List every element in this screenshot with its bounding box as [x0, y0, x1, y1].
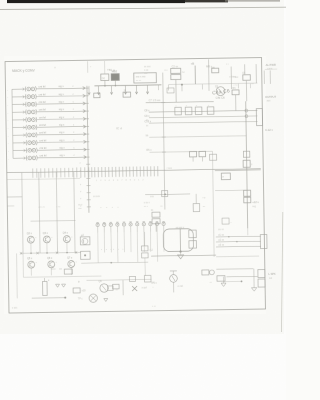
label out line 0 [218, 229, 224, 231]
wire J1 pin 3 net [37, 102, 85, 105]
bus tap row 4 [86, 110, 89, 112]
label TB1 [107, 68, 115, 72]
capacitor C20 electrolytic [96, 222, 99, 232]
svg-text:R5 x: R5 x [146, 149, 152, 152]
varistor X1 [132, 286, 137, 291]
wire J1 pin 4 stub [12, 111, 26, 114]
junction dot top rail [181, 84, 183, 86]
bus lower faint line [7, 178, 80, 179]
wire caps row drops [98, 232, 164, 263]
capacitor C22 electrolytic [109, 222, 112, 232]
svg-text:rr: rr [222, 176, 224, 179]
module MB3 box [134, 73, 157, 83]
svg-text:TP5 x: TP5 x [151, 282, 158, 285]
ground G3 [104, 298, 108, 301]
label near Q1 [229, 75, 236, 78]
svg-text:C8 x: C8 x [144, 109, 150, 112]
module MB2 box [111, 74, 119, 81]
test point TP5 drop [135, 85, 138, 94]
svg-text:MB2: MB2 [112, 69, 118, 73]
label AL PWR 2 [267, 67, 273, 70]
svg-text:Q2 x: Q2 x [27, 232, 33, 235]
svg-text:xx xxx: xx xxx [144, 66, 151, 68]
test point TP3 drop [110, 86, 113, 95]
svg-text:Q7 x: Q7 x [67, 257, 73, 260]
bus tap row 2 [86, 95, 89, 97]
capacitor C210 electrolytic [162, 221, 165, 231]
test point TP6 drop [146, 85, 149, 94]
label pin number 5 [8, 120, 9, 122]
svg-text:+12 v: +12 v [252, 200, 259, 204]
svg-text:Q3 x: Q3 x [43, 232, 49, 235]
svg-text:cnt lvl: cnt lvl [39, 92, 46, 96]
wire J1 pin 8 stub [13, 141, 27, 144]
capacitor C30 electrolytic [42, 278, 50, 296]
bus stub 16 [80, 198, 91, 200]
transformer T1 winding [179, 229, 181, 251]
wire right columns [231, 64, 256, 89]
wire J1 pin 2 stub [12, 95, 26, 98]
diode D6 box [144, 275, 151, 282]
label C4x C6 big [212, 88, 231, 96]
label c ccc [12, 306, 18, 309]
wire bias rail [146, 98, 214, 102]
ground G2 [62, 284, 66, 287]
wire right cluster drops [235, 81, 246, 111]
arrow into bus row 6 [83, 125, 86, 128]
svg-text:xxx xx: xxx xx [38, 206, 45, 208]
svg-text:sig x: sig x [58, 84, 64, 88]
label L SPKR [268, 272, 276, 280]
resistor R2 box [123, 92, 131, 97]
diode D7 box [210, 154, 217, 160]
label pin number 7 [8, 135, 9, 137]
transistor Q1 [215, 85, 225, 96]
wire bottom rail a [31, 276, 101, 277]
svg-text:o1 xx: o1 xx [218, 235, 224, 237]
label R2 value [123, 89, 126, 92]
wire lower rail [151, 255, 216, 256]
wire spkr drop [253, 269, 255, 288]
label C4x C6 [216, 96, 226, 100]
svg-text:C-12 v: C-12 v [265, 128, 273, 132]
label pin number 4 [7, 112, 8, 114]
wire center column taps [161, 103, 166, 153]
svg-text:sig x: sig x [59, 92, 65, 96]
bus stub 11 [80, 162, 91, 164]
arrow into bus row 3 [83, 102, 86, 105]
connector CN4 stack [258, 270, 265, 288]
svg-text:cnt lvl: cnt lvl [39, 154, 46, 158]
svg-text:sig x: sig x [59, 100, 65, 104]
label net name row 7 [39, 130, 75, 135]
label pin number 8 [8, 143, 9, 145]
wire drop 3 [56, 172, 57, 253]
svg-text:xxx x xxx: xxx x xxx [136, 75, 147, 78]
bus tap row 6 [86, 125, 89, 127]
transistor Q8 [99, 281, 109, 292]
resistor chain R12 [141, 232, 148, 276]
svg-text:sig x: sig x [59, 107, 65, 111]
svg-text:sig x: sig x [59, 123, 65, 127]
wire extra drops [158, 84, 250, 92]
wire J1 pin 5 stub [12, 118, 26, 121]
wire node line [145, 193, 190, 196]
wire data line 3 [149, 121, 257, 123]
label center note [150, 195, 154, 198]
label pin number 3 [7, 105, 8, 107]
svg-text:x col: x col [142, 286, 147, 289]
transformer T1 core [163, 229, 193, 252]
bus stub 14 [80, 184, 91, 186]
wire J1 pin 9 net [37, 149, 85, 152]
label output pin [267, 99, 272, 102]
svg-text:C7 1.5 xxx: C7 1.5 xxx [149, 99, 162, 102]
wire C2 drop [175, 80, 177, 103]
svg-text:IC d: IC d [116, 126, 122, 130]
label stage row b [56, 206, 61, 208]
junction x marks rail [20, 251, 77, 254]
resistor R5 box [189, 151, 205, 161]
wire out line 3 [216, 244, 261, 247]
test point TP2 drop [97, 86, 100, 95]
capacitor C23 electrolytic [116, 222, 119, 232]
resistor R17 box [113, 284, 120, 289]
svg-text:cnt lvl: cnt lvl [39, 108, 46, 112]
svg-text:xx xxx: xx xxx [93, 195, 100, 198]
label q9 [178, 285, 184, 288]
ground G1 [56, 284, 60, 287]
wire +B drop [194, 66, 196, 84]
resistor R7 box [244, 190, 251, 203]
connector J1 pin 6 [26, 125, 37, 130]
label c31 rows [144, 202, 164, 208]
module MB2 label [112, 69, 118, 73]
resistor R15 box [64, 269, 72, 274]
wire top right rail [168, 83, 257, 84]
capacitor C28 electrolytic [149, 222, 152, 232]
arrow into bus row 2 [83, 94, 86, 97]
connector J1 pin 5 [26, 117, 37, 122]
wire feed line2 [149, 150, 212, 153]
capacitor C15 box [162, 191, 168, 197]
wire drop 247 ext [247, 228, 249, 235]
label caps row top [100, 207, 120, 209]
capacitor C21 electrolytic [103, 222, 106, 232]
label net name row 3 [39, 99, 75, 104]
transistor Q7 [67, 257, 78, 276]
svg-text:out: out [269, 277, 273, 280]
label IC1 [116, 126, 122, 130]
wire J1 pin 10 net [38, 156, 86, 159]
wire stub left [7, 196, 22, 198]
label R10 [203, 196, 207, 208]
label +B [191, 62, 195, 66]
svg-text:sig x: sig x [59, 130, 65, 134]
svg-text:sig x: sig x [59, 146, 65, 150]
bus tap row 3 [86, 102, 89, 104]
transistor Q3 [43, 232, 54, 253]
connector CN3 box [260, 234, 267, 248]
label pwr underline [265, 68, 277, 70]
resistor R3 box [232, 88, 239, 95]
svg-text:c ccc: c ccc [12, 306, 18, 309]
resistor R25 box [217, 276, 225, 282]
bus stub 17 [80, 205, 91, 207]
wire J1 pin 10 stub [13, 157, 27, 160]
relay K1 box [101, 61, 109, 81]
label net name row 5 [39, 115, 75, 120]
svg-text:cnt lvl: cnt lvl [39, 100, 46, 104]
wire out line 1 [216, 234, 261, 237]
svg-text:MB: MB [211, 67, 215, 70]
svg-text:cnt lvl: cnt lvl [39, 123, 46, 127]
wire q9 drop [170, 271, 177, 293]
wire stub below border tl [88, 61, 93, 73]
wire J1 pin 5 net [37, 118, 85, 121]
capacitor C29 electrolytic [155, 221, 158, 231]
bus stub 12 [80, 170, 91, 172]
wire J1 pin 6 stub [13, 126, 27, 129]
label net name row 1 [38, 84, 74, 89]
svg-text:L SPK: L SPK [268, 272, 276, 276]
resistor R1 box [94, 93, 100, 98]
junction rings right [245, 109, 248, 118]
capacitor C31 stack [151, 210, 160, 224]
label net name row 6 [39, 122, 75, 127]
bus line left vertical [87, 86, 89, 213]
capacitor C24 electrolytic [122, 222, 125, 232]
label pin number 1 [7, 89, 8, 91]
bus stub 13 [80, 177, 91, 179]
bus tap row 9 [86, 148, 89, 150]
arrow into bus row 5 [83, 117, 86, 120]
label data line 1 [144, 109, 150, 112]
wire top rail [94, 84, 161, 87]
connector J1 pin 7 [26, 132, 37, 137]
wire J1 pin 9 stub [13, 149, 27, 152]
resistor R20 box [189, 230, 197, 238]
svg-text:o3 xx: o3 xx [218, 245, 224, 247]
capacitor C11 box [185, 105, 192, 115]
svg-text:x xx x: x xx x [144, 202, 151, 204]
ground G5 [251, 288, 256, 292]
wire J1 pin 4 net [37, 110, 85, 113]
wire out line 4 [216, 255, 259, 258]
label stage row a [38, 206, 45, 208]
capacitor C5 box [242, 73, 250, 81]
diode D1 box [212, 68, 219, 73]
bus comb center [77, 166, 158, 177]
svg-text:(v): (v) [102, 76, 105, 80]
connector J1 pin 1 [25, 86, 36, 91]
wire center column [163, 73, 165, 210]
junction dot out [241, 280, 243, 282]
label C30 [51, 268, 62, 271]
wire mid rail [215, 169, 261, 172]
label near corner [226, 64, 230, 66]
svg-text:Q4 x: Q4 x [63, 232, 69, 235]
bus stub 15 [80, 191, 91, 193]
label OUTPUT [265, 95, 276, 99]
capacitor C8 box [167, 88, 174, 93]
connector J1 pin 10 [26, 155, 37, 160]
wire emitter rail [21, 251, 81, 254]
svg-text:OUTPUT: OUTPUT [265, 95, 276, 99]
bus tap row 5 [86, 118, 89, 120]
transistor Q9 [170, 275, 178, 283]
svg-text:e out: e out [178, 285, 184, 288]
capacitor C13 box [207, 105, 214, 115]
svg-text:cnt lvl: cnt lvl [39, 131, 46, 135]
diode D5 [202, 270, 214, 275]
wire q8 drop [122, 280, 124, 295]
label bus note [93, 195, 100, 198]
bus tap row 1 [85, 87, 88, 89]
resistor R8 box [221, 173, 230, 180]
label R5 [146, 149, 152, 152]
wire data line 2 [149, 116, 257, 118]
wire J1 pin 1 net [36, 87, 84, 90]
transistor Q4 [63, 232, 74, 253]
wire mid bottom rail [86, 279, 151, 280]
label tp mid [78, 280, 81, 283]
module U3 box [81, 251, 91, 259]
arrow into bus row 4 [83, 110, 86, 113]
wire node drop [195, 194, 197, 204]
label stage row c [78, 204, 83, 210]
wire J1 pin 7 net [37, 133, 85, 136]
wire out line 5 [216, 268, 253, 271]
scan horizontal crease line [0, 7, 286, 9]
label cluster topleft [144, 66, 151, 75]
svg-text:cnt lvl: cnt lvl [39, 146, 46, 150]
svg-text:cnt lvl: cnt lvl [38, 85, 45, 89]
arrow into bus row 10 [84, 156, 87, 159]
label mb col [211, 66, 254, 87]
label R7 [252, 200, 259, 208]
arrow into bus row 1 [83, 87, 86, 90]
wire data line 1 [149, 110, 257, 112]
test point TP4 drop [124, 85, 127, 94]
label net name row 8 [39, 138, 75, 143]
label net name row 2 [39, 92, 75, 97]
wire right drop x213 [212, 151, 214, 256]
label mid right col [146, 120, 149, 128]
resistor R10 box [193, 204, 200, 212]
wire J1 pin 1 stub [12, 88, 26, 91]
capacitor C10 box [175, 105, 182, 115]
transistor Q5 [27, 257, 38, 276]
label above T1 [176, 226, 185, 229]
svg-text:x x x x: x x x x [100, 207, 120, 209]
label pin number 10 [8, 158, 9, 160]
resistor R19 box [108, 286, 119, 292]
junction dots out lines [228, 236, 237, 243]
label AL PWR [266, 63, 276, 67]
capacitor C26 electrolytic [136, 222, 139, 232]
svg-text:TP c: TP c [78, 297, 84, 300]
junction dots rail [30, 252, 68, 254]
label bus r [167, 167, 173, 170]
zener VR1 box [243, 160, 253, 167]
label MBx [206, 64, 213, 68]
wire drop 4 [74, 172, 75, 253]
label net name row 10 [39, 153, 75, 158]
arrow into bus row 9 [84, 148, 87, 151]
wire J1 pin 3 stub [12, 103, 26, 106]
svg-text:r xxx: r xxx [167, 167, 173, 170]
wire out line 2 [216, 239, 261, 242]
arrow into bus row 8 [83, 140, 86, 143]
svg-text:C4x C6: C4x C6 [216, 96, 226, 100]
wire J1 pin 8 net [37, 141, 85, 144]
connector J1 pin 8 [26, 140, 37, 145]
connector CN2 box [256, 109, 262, 126]
label TP5 [151, 282, 158, 289]
arrow into bus row 7 [83, 133, 86, 136]
wire c31 drop [155, 224, 157, 232]
module U2 box [80, 235, 90, 245]
wire left edge drop [16, 253, 19, 298]
wire out line 7 [224, 280, 242, 282]
wire J1 common rail [12, 89, 13, 158]
relay K1 label [102, 76, 105, 80]
svg-text:C2 xx: C2 xx [172, 65, 179, 68]
label net name row 4 [39, 107, 75, 112]
transistor Q2 [27, 232, 38, 253]
svg-text:sig x: sig x [59, 138, 65, 142]
wire J1 pin 7 stub [13, 134, 27, 137]
capacitor C27 electrolytic [142, 222, 145, 232]
wire right power column [246, 101, 248, 228]
label data line 2 [144, 115, 150, 118]
scan top dark bar [7, 0, 280, 3]
label c2 right [164, 69, 185, 74]
bus tap row 7 [86, 133, 89, 135]
wire bottom rail b [32, 297, 66, 300]
label under caps row [101, 249, 125, 251]
wire drop1 extension [23, 253, 31, 277]
svg-text:sig x: sig x [59, 153, 65, 157]
svg-text:o2 xx: o2 xx [218, 240, 224, 242]
wire mb column [208, 59, 210, 90]
title text MAIN AMP [12, 66, 56, 72]
bus tap row 10 [87, 156, 90, 158]
wire pre-driver rail [31, 219, 76, 222]
label bottom border note [152, 306, 157, 308]
ground G4 [178, 251, 184, 258]
svg-text:Q5 x: Q5 x [27, 257, 33, 260]
wire MB2 drop [105, 80, 116, 85]
label R12 [150, 249, 154, 252]
wire mid rail2 [215, 189, 247, 192]
capacitor C25 electrolytic [129, 222, 132, 232]
wire pwr lead [264, 70, 270, 84]
connector J1 pin 9 [26, 148, 37, 153]
capacitor C16 box [222, 218, 233, 224]
wire out line 6 [226, 275, 257, 277]
ground stub [7, 205, 14, 207]
sheet border [5, 58, 265, 313]
bus comb left [33, 168, 73, 178]
label top right small [210, 282, 213, 284]
transistor Q7b [81, 235, 88, 244]
transistor Q6 [47, 257, 58, 276]
resistor R21 box [189, 241, 197, 249]
speaker SP1 [89, 294, 98, 303]
svg-text:MACK y CONV: MACK y CONV [12, 68, 35, 72]
